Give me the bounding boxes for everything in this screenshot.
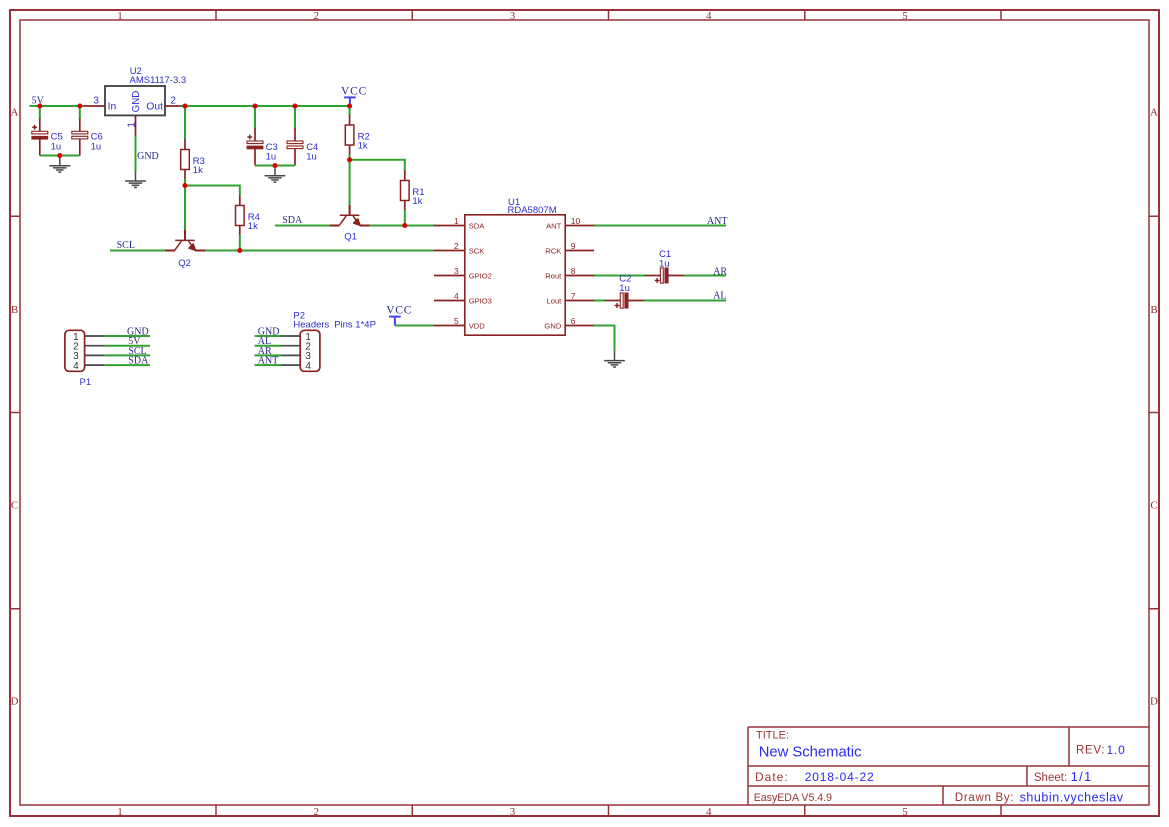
svg-text:2: 2 [170, 96, 176, 107]
svg-text:1k: 1k [358, 141, 368, 152]
wire U1 pin 10 to ANT [565, 225, 726, 227]
svg-text:1u: 1u [266, 151, 277, 162]
svg-text:GND: GND [131, 91, 142, 113]
svg-text:1u: 1u [91, 141, 102, 152]
svg-text:shubin.vycheslav: shubin.vycheslav [1020, 790, 1124, 804]
svg-text:Out: Out [146, 101, 163, 112]
wire VCC to R2 [349, 106, 351, 160]
svg-text:8: 8 [571, 266, 576, 276]
node C3 [252, 103, 257, 108]
title block [748, 727, 1149, 805]
wire R2 node to R1 [350, 160, 405, 172]
svg-text:2: 2 [454, 241, 459, 251]
node C5/C6 gnd [57, 153, 62, 158]
ground (C5/C6) [49, 156, 70, 173]
svg-text:VCC: VCC [386, 304, 412, 316]
svg-text:TITLE:: TITLE: [756, 730, 789, 742]
svg-text:VDD: VDD [469, 322, 486, 331]
wire U2 pin1 to ground [135, 115, 137, 171]
wire Lout through C2 to AL [565, 300, 726, 302]
IC U1 RDA5807M [454, 197, 581, 335]
svg-text:GPIO3: GPIO3 [469, 297, 492, 306]
svg-text:3: 3 [93, 96, 99, 107]
resistor R2 1k [345, 125, 369, 152]
wire C6 leads [79, 106, 81, 156]
wire C3-C4 ground bus [255, 165, 295, 167]
ground (U2 pin1) [125, 171, 146, 188]
svg-text:Sheet:: Sheet: [1034, 772, 1067, 784]
svg-text:4: 4 [706, 10, 712, 22]
svg-text:B: B [11, 304, 18, 316]
svg-text:Drawn By:: Drawn By: [955, 792, 1014, 804]
wire R3/R4 node to R4 [185, 186, 240, 197]
header P1 [65, 330, 150, 388]
node C6 [77, 103, 82, 108]
node R3 bottom [182, 183, 187, 188]
capacitor C3 1u (polarized) [247, 135, 278, 163]
svg-text:Pins 1*4P: Pins 1*4P [334, 320, 376, 331]
svg-text:1: 1 [454, 216, 459, 226]
pin U1 pin 9 stub [565, 250, 594, 252]
transistor Q1 [330, 215, 370, 242]
wire Q2 base [184, 186, 186, 241]
svg-text:SDA: SDA [128, 356, 149, 367]
svg-text:AR: AR [713, 267, 727, 278]
wire R3 branch [184, 106, 186, 186]
svg-text:2018-04-22: 2018-04-22 [805, 770, 875, 784]
svg-text:1u: 1u [619, 283, 630, 294]
svg-text:In: In [108, 101, 117, 112]
capacitor C5 1u (polarized) [32, 125, 63, 152]
svg-text:2: 2 [314, 10, 320, 22]
svg-text:GPIO2: GPIO2 [469, 272, 492, 281]
svg-text:SCL: SCL [117, 240, 135, 251]
pin U1 pin 4 stub [434, 300, 465, 302]
svg-text:1k: 1k [412, 196, 422, 207]
svg-text:5: 5 [902, 10, 908, 22]
resistor R1 1k [401, 181, 425, 208]
svg-text:2: 2 [314, 806, 320, 818]
svg-text:6: 6 [571, 316, 576, 326]
wire U1 pin 6 to ground [565, 326, 614, 351]
svg-text:1: 1 [117, 10, 123, 22]
ground (U1 pin6) [604, 350, 625, 367]
svg-text:10: 10 [571, 216, 581, 226]
svg-text:SDA: SDA [282, 215, 303, 226]
node VCC [347, 103, 352, 108]
svg-text:1k: 1k [193, 165, 203, 176]
wire C3 leads [254, 106, 256, 166]
svg-text:SDA: SDA [469, 222, 486, 231]
svg-text:1/1: 1/1 [1071, 769, 1093, 784]
svg-text:Rout: Rout [545, 272, 562, 281]
node R1/SDA [402, 223, 407, 228]
svg-text:5: 5 [454, 316, 459, 326]
svg-text:C: C [1150, 500, 1157, 512]
svg-text:7: 7 [571, 291, 576, 301]
svg-text:4: 4 [454, 291, 459, 301]
svg-text:5: 5 [902, 806, 908, 818]
svg-text:REV:: REV: [1076, 745, 1105, 757]
node 5V/C5 [37, 103, 42, 108]
svg-text:A: A [11, 107, 19, 119]
svg-text:GND: GND [544, 322, 561, 331]
svg-text:P1: P1 [80, 377, 92, 388]
wire Rout through C1 to AR [565, 275, 726, 277]
node C4 [292, 103, 297, 108]
svg-text:D: D [11, 696, 19, 708]
svg-text:1k: 1k [248, 221, 258, 232]
wire VCC to U1 VDD pin 5 [395, 325, 465, 327]
header P2 [255, 311, 376, 372]
svg-text:D: D [1150, 696, 1158, 708]
svg-text:Date:: Date: [755, 770, 789, 784]
svg-text:ANT: ANT [707, 216, 728, 227]
svg-text:4: 4 [706, 806, 712, 818]
svg-text:A: A [1150, 107, 1158, 119]
svg-text:3: 3 [510, 10, 516, 22]
svg-text:1u: 1u [306, 151, 317, 162]
svg-text:3: 3 [454, 266, 459, 276]
regulator U2 AMS1117-3.3 [93, 66, 186, 128]
svg-text:New Schematic: New Schematic [759, 745, 862, 761]
svg-text:ANT: ANT [546, 222, 562, 231]
svg-text:SCK: SCK [469, 247, 485, 256]
svg-text:AMS1117-3.3: AMS1117-3.3 [130, 75, 187, 86]
node R4/SCK [237, 248, 242, 253]
transistor Q2 [165, 240, 205, 268]
wire U2 output to VCC rail [165, 105, 350, 107]
svg-text:3: 3 [510, 806, 516, 818]
svg-text:4: 4 [305, 361, 311, 372]
wire C5-C6 ground bus [40, 155, 80, 157]
svg-text:ANT: ANT [258, 356, 279, 367]
svg-text:9: 9 [571, 241, 576, 251]
wire 5V input rail [30, 105, 106, 107]
svg-text:RDA5807M: RDA5807M [508, 205, 557, 216]
svg-text:AL: AL [713, 291, 726, 302]
wire Q1 base [349, 160, 351, 215]
svg-text:1: 1 [117, 806, 123, 818]
svg-text:Lout: Lout [547, 297, 563, 306]
wire SCL / SCK line [110, 250, 465, 252]
power flag VCC (VDD) [386, 304, 412, 325]
svg-text:Q2: Q2 [178, 258, 191, 269]
node C3/C4 gnd [272, 163, 277, 168]
capacitor C2 1u (polarized) [615, 274, 632, 309]
svg-text:1u: 1u [51, 141, 62, 152]
power flag VCC (top) [341, 85, 367, 104]
resistor R3 1k [181, 150, 205, 177]
node R2 bottom [347, 157, 352, 162]
svg-text:EasyEDA V5.4.9: EasyEDA V5.4.9 [754, 792, 832, 804]
svg-text:C: C [11, 500, 18, 512]
svg-text:1.0: 1.0 [1107, 743, 1126, 757]
svg-text:4: 4 [73, 361, 79, 372]
wire SDA line to U1 pin 1 [275, 225, 465, 227]
node U2 out [182, 103, 187, 108]
wire C5 leads [39, 106, 41, 156]
svg-text:RCK: RCK [545, 247, 561, 256]
svg-text:Headers: Headers [293, 320, 329, 331]
svg-text:VCC: VCC [341, 85, 367, 97]
ground (C3/C4) [265, 166, 286, 183]
capacitor C6 1u [72, 131, 103, 152]
svg-text:B: B [1150, 304, 1157, 316]
capacitor C4 1u [287, 141, 318, 162]
svg-text:1: 1 [126, 122, 137, 128]
pin U1 pin 3 stub [434, 275, 465, 277]
svg-text:1u: 1u [659, 258, 670, 269]
svg-text:Q1: Q1 [344, 232, 357, 243]
wire C4 leads [294, 106, 296, 166]
svg-text:GND: GND [137, 151, 159, 162]
resistor R4 1k [236, 206, 260, 233]
capacitor C1 1u (polarized) [655, 249, 671, 283]
